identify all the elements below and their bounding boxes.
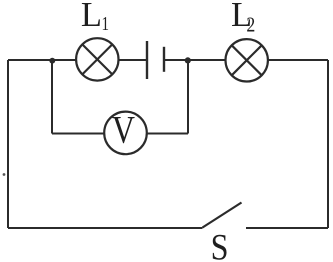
wire: voltmeter branch right vertical: [187, 60, 189, 134]
svg-text:L: L: [81, 0, 102, 34]
lamp L1: [76, 38, 118, 80]
node B (junction dot, right): [185, 57, 191, 63]
switch S (open blade): [203, 203, 242, 228]
speck artifact: [3, 173, 6, 176]
wire: left side vertical: [7, 60, 9, 228]
wire: lamp L1 to battery positive plate: [118, 59, 146, 61]
wire: bottom left segment (to switch pivot): [8, 227, 203, 229]
wire: voltmeter branch left vertical: [51, 60, 53, 134]
wire: voltmeter branch bottom right: [147, 133, 189, 135]
lamp L2: [226, 39, 268, 81]
svg-text:2: 2: [246, 14, 255, 37]
wire: bottom right segment (to switch contact): [246, 227, 328, 229]
wire: right side vertical: [327, 60, 329, 228]
svg-text:S: S: [211, 227, 229, 262]
wire: node B to lamp L2: [188, 59, 226, 61]
wire: battery to node B: [165, 59, 190, 61]
battery cell B1: [147, 41, 164, 79]
voltmeter V (meter circle): [104, 112, 147, 155]
wire: lamp L2 to top right corner: [267, 59, 328, 61]
svg-text:V: V: [112, 107, 135, 151]
wire: top left segment (corner to lamp L1): [8, 59, 77, 61]
svg-text:1: 1: [102, 12, 109, 35]
wire: voltmeter branch bottom left: [52, 133, 105, 135]
node A (junction dot, left): [49, 58, 55, 64]
